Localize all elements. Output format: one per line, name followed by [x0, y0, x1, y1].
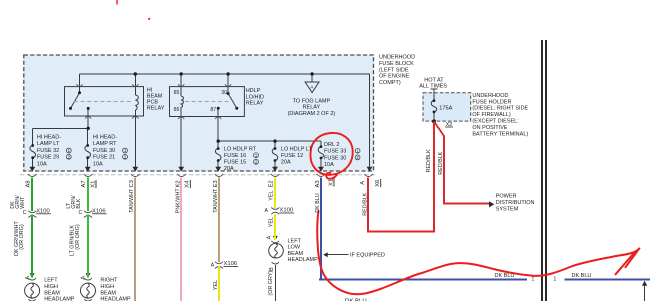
svg-text:C3: C3	[129, 180, 135, 187]
svg-text:RELAY: RELAY	[147, 105, 165, 111]
svg-text:FUSE 21: FUSE 21	[93, 155, 115, 161]
svg-text:OF FIREWALL): OF FIREWALL)	[472, 112, 510, 118]
svg-text:LO HDLP LT: LO HDLP LT	[281, 146, 313, 152]
svg-text:PNK/WHT: PNK/WHT	[176, 188, 182, 214]
svg-text:RED/BLK: RED/BLK	[362, 192, 368, 215]
svg-text:A3: A3	[315, 180, 321, 187]
svg-text:POWER: POWER	[496, 194, 517, 200]
svg-text:85: 85	[174, 90, 180, 96]
svg-text:ALL TIMES: ALL TIMES	[419, 84, 447, 90]
svg-text:SYSTEM: SYSTEM	[496, 206, 519, 212]
svg-text:BEAM: BEAM	[288, 251, 304, 257]
svg-text:FUSE 29: FUSE 29	[37, 155, 59, 161]
svg-text:FUSE 30: FUSE 30	[324, 156, 346, 162]
svg-text:DK BLU: DK BLU	[495, 273, 515, 279]
svg-text:DRL 2: DRL 2	[324, 142, 339, 148]
svg-text:RELAY: RELAY	[303, 104, 321, 110]
svg-text:A: A	[265, 208, 269, 214]
svg-text:10A: 10A	[93, 161, 103, 167]
svg-text:20A: 20A	[224, 166, 234, 172]
svg-text:WHT: WHT	[20, 196, 26, 209]
svg-text:IF EQUIPPED: IF EQUIPPED	[350, 253, 385, 259]
svg-text:(EXCEPT DIESEL:: (EXCEPT DIESEL:	[472, 119, 519, 125]
svg-text:FUSE 12: FUSE 12	[281, 153, 303, 159]
svg-text:175A: 175A	[439, 105, 452, 111]
svg-text:10A: 10A	[324, 162, 334, 168]
svg-text:OF ENGINE: OF ENGINE	[379, 74, 410, 80]
svg-text:FUSE 15: FUSE 15	[224, 160, 246, 166]
svg-text:87: 87	[210, 107, 216, 113]
svg-text:BEAM: BEAM	[100, 290, 116, 296]
svg-text:FUSE HOLDER: FUSE HOLDER	[472, 99, 511, 105]
svg-text:(DIESEL: RIGHT SIDE: (DIESEL: RIGHT SIDE	[472, 106, 528, 112]
svg-text:30: 30	[221, 90, 227, 96]
svg-text:20A: 20A	[281, 160, 291, 166]
svg-text:HEADLAMP: HEADLAMP	[288, 257, 319, 263]
svg-text:YEL: YEL	[269, 191, 275, 201]
svg-text:FUSE 30: FUSE 30	[93, 148, 115, 154]
svg-text:RED/BLK: RED/BLK	[438, 151, 444, 174]
svg-text:RIGHT: RIGHT	[100, 278, 118, 284]
svg-text:HEADLAMP: HEADLAMP	[100, 297, 131, 301]
svg-text:K2: K2	[176, 180, 182, 187]
svg-text:LAMP LT: LAMP LT	[37, 141, 60, 147]
svg-text:(OR ORG): (OR ORG)	[75, 224, 81, 250]
svg-text:B: B	[269, 267, 275, 271]
svg-text:UNDERHOOD: UNDERHOOD	[379, 55, 415, 61]
svg-text:RED/BLK: RED/BLK	[426, 149, 432, 172]
svg-text:A: A	[267, 236, 273, 240]
svg-text:86: 86	[174, 107, 180, 113]
svg-text:A7: A7	[81, 180, 87, 187]
svg-text:TAN/WHT: TAN/WHT	[129, 188, 135, 213]
svg-text:FUSE 33: FUSE 33	[324, 149, 346, 155]
svg-text:1: 1	[532, 276, 535, 282]
svg-text:LO HDLP RT: LO HDLP RT	[224, 146, 257, 152]
svg-text:LEFT: LEFT	[288, 238, 302, 244]
svg-text:LO/HID: LO/HID	[246, 94, 264, 100]
svg-text:UNDERHOOD: UNDERHOOD	[472, 93, 508, 99]
svg-text:A: A	[81, 276, 87, 280]
svg-text:A8: A8	[25, 180, 31, 187]
svg-text:LEFT: LEFT	[44, 278, 58, 284]
svg-text:BEAM: BEAM	[44, 290, 60, 296]
svg-text:RELAY: RELAY	[246, 101, 264, 107]
svg-text:TAN/WHT: TAN/WHT	[213, 188, 219, 213]
svg-text:HI HEAD-: HI HEAD-	[93, 134, 117, 140]
svg-text:X1: X1	[328, 179, 334, 186]
svg-text:E2: E2	[269, 180, 275, 187]
svg-text:DK BLU: DK BLU	[315, 193, 321, 213]
svg-text:X1: X1	[90, 181, 96, 188]
svg-text:A: A	[360, 181, 366, 185]
svg-text:(LEFT SIDE: (LEFT SIDE	[379, 67, 409, 73]
svg-text:YEL: YEL	[213, 280, 219, 290]
svg-text:E3: E3	[213, 180, 219, 187]
svg-text:LOW: LOW	[288, 245, 301, 251]
svg-text:HEADLAMP: HEADLAMP	[44, 297, 75, 301]
svg-text:FUSE BLOCK: FUSE BLOCK	[379, 61, 414, 67]
svg-text:DISTRIBUTION: DISTRIBUTION	[496, 200, 535, 206]
svg-text:X6: X6	[375, 180, 381, 187]
svg-text:BATTERY TERMINAL): BATTERY TERMINAL)	[472, 131, 528, 137]
svg-text:(OR ORG): (OR ORG)	[19, 224, 25, 250]
svg-text:C: C	[79, 210, 83, 216]
svg-text:1: 1	[554, 276, 557, 282]
svg-text:C: C	[23, 210, 27, 216]
svg-text:HIGH: HIGH	[100, 284, 114, 290]
svg-text:(DIAGRAM 2 OF 2): (DIAGRAM 2 OF 2)	[288, 111, 336, 117]
svg-text:FUSE 16: FUSE 16	[224, 153, 246, 159]
svg-text:COMPT): COMPT)	[379, 80, 401, 86]
svg-text:YEL: YEL	[269, 217, 275, 227]
svg-text:HOT AT: HOT AT	[424, 78, 444, 84]
svg-text:ON POSITIVE: ON POSITIVE	[472, 125, 507, 131]
svg-text:BLK: BLK	[76, 198, 82, 209]
svg-text:A: A	[25, 276, 31, 280]
svg-text:A: A	[211, 263, 215, 269]
svg-text:HIGH: HIGH	[44, 284, 58, 290]
svg-text:10A: 10A	[37, 161, 47, 167]
svg-text:X4: X4	[185, 180, 191, 188]
svg-text:DK BLU: DK BLU	[572, 273, 592, 279]
svg-text:HI HEAD-: HI HEAD-	[37, 134, 61, 140]
svg-text:FUSE 32: FUSE 32	[37, 148, 59, 154]
svg-text:HDLP: HDLP	[246, 88, 261, 94]
svg-text:LAMP RT: LAMP RT	[93, 141, 117, 147]
svg-text:(OR GRY): (OR GRY)	[268, 271, 274, 296]
